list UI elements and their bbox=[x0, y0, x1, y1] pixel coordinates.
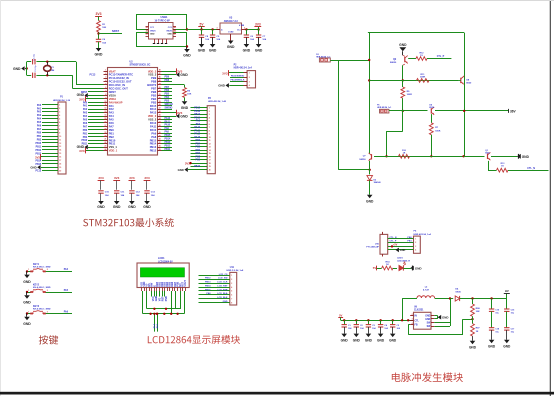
svg-text:PA8: PA8 bbox=[165, 131, 170, 134]
svg-text:GND: GND bbox=[23, 322, 31, 326]
svg-text:45: 45 bbox=[159, 79, 161, 82]
svg-text:10K: 10K bbox=[187, 94, 191, 96]
svg-text:B1: B1 bbox=[174, 34, 176, 36]
svg-text:7: 7 bbox=[59, 125, 60, 127]
svg-text:P1: P1 bbox=[60, 97, 64, 99]
svg-text:1: 1 bbox=[28, 311, 29, 313]
svg-text:PB13: PB13 bbox=[205, 282, 211, 284]
svg-text:+5V: +5V bbox=[393, 244, 398, 247]
svg-text:PA5: PA5 bbox=[83, 119, 88, 122]
svg-text:GND: GND bbox=[218, 84, 226, 88]
svg-text:R7: R7 bbox=[435, 127, 439, 129]
svg-text:3V3: 3V3 bbox=[35, 155, 40, 159]
svg-text:PB14: PB14 bbox=[205, 284, 211, 287]
svg-text:PB14: PB14 bbox=[35, 159, 41, 162]
svg-text:PB12: PB12 bbox=[165, 145, 171, 147]
svg-text:R1: R1 bbox=[102, 24, 106, 26]
svg-text:3V3: 3V3 bbox=[222, 71, 228, 75]
svg-text:C18: C18 bbox=[495, 328, 500, 330]
svg-text:PC13-TAMPER-RTC: PC13-TAMPER-RTC bbox=[109, 73, 133, 77]
svg-text:1K: 1K bbox=[501, 165, 504, 167]
svg-text:8: 8 bbox=[105, 94, 106, 96]
svg-text:PA14: PA14 bbox=[150, 107, 157, 111]
svg-text:C13: C13 bbox=[151, 192, 156, 194]
svg-text:3V3: 3V3 bbox=[129, 176, 135, 180]
svg-text:GND: GND bbox=[97, 205, 105, 209]
svg-text:2: 2 bbox=[47, 311, 48, 313]
svg-text:NRST: NRST bbox=[112, 29, 119, 33]
svg-text:PB0: PB0 bbox=[83, 130, 88, 132]
svg-text:104: 104 bbox=[121, 194, 125, 197]
svg-text:104: 104 bbox=[372, 327, 376, 330]
svg-text:PB2: PB2 bbox=[83, 137, 88, 139]
svg-text:VSSA: VSSA bbox=[109, 93, 116, 97]
svg-text:PA6: PA6 bbox=[37, 125, 42, 128]
svg-text:2: 2 bbox=[47, 269, 48, 271]
svg-text:PB10: PB10 bbox=[35, 143, 41, 145]
svg-text:1: 1 bbox=[59, 105, 60, 107]
svg-text:BLK: BLK bbox=[157, 323, 159, 328]
svg-text:16: 16 bbox=[209, 156, 211, 158]
svg-text:24: 24 bbox=[105, 148, 107, 151]
svg-text:4: 4 bbox=[249, 84, 250, 87]
svg-text:3V3: 3V3 bbox=[144, 176, 150, 180]
svg-text:FB: FB bbox=[415, 325, 418, 327]
svg-text:PB4: PB4 bbox=[196, 142, 201, 145]
svg-text:R08: R08 bbox=[476, 308, 481, 310]
svg-text:PA7: PA7 bbox=[109, 124, 114, 128]
svg-text:3V3: 3V3 bbox=[79, 97, 85, 101]
svg-text:7: 7 bbox=[209, 127, 210, 129]
svg-text:PA11: PA11 bbox=[150, 124, 157, 128]
svg-text:4: 4 bbox=[231, 286, 232, 289]
svg-text:C3 22p: C3 22p bbox=[35, 64, 37, 72]
svg-text:15: 15 bbox=[209, 153, 211, 155]
svg-text:10: 10 bbox=[209, 137, 211, 139]
svg-text:3: 3 bbox=[415, 246, 416, 248]
svg-text:9: 9 bbox=[209, 134, 210, 136]
svg-text:PA4: PA4 bbox=[37, 118, 42, 121]
svg-text:PB14: PB14 bbox=[165, 138, 171, 141]
svg-text:U8: U8 bbox=[466, 79, 470, 81]
svg-text:2: 2 bbox=[231, 279, 232, 281]
svg-text:17: 17 bbox=[59, 160, 61, 162]
svg-text:2: 2 bbox=[412, 314, 413, 316]
svg-text:PA12: PA12 bbox=[194, 133, 200, 136]
svg-text:PA1: PA1 bbox=[83, 105, 88, 108]
svg-text:39: 39 bbox=[159, 101, 161, 103]
svg-text:PB6: PB6 bbox=[151, 90, 157, 94]
svg-text:PB1: PB1 bbox=[37, 136, 42, 138]
svg-text:GND: GND bbox=[503, 345, 511, 349]
svg-text:1K: 1K bbox=[476, 331, 479, 333]
svg-text:GND: GND bbox=[341, 339, 349, 343]
svg-text:GND: GND bbox=[365, 339, 373, 343]
svg-text:U3: U3 bbox=[229, 17, 233, 20]
svg-text:5V: 5V bbox=[373, 266, 377, 270]
svg-text:PB2: PB2 bbox=[109, 135, 115, 139]
svg-text:14: 14 bbox=[59, 149, 61, 152]
svg-text:5: 5 bbox=[59, 118, 60, 120]
svg-text:10u: 10u bbox=[495, 313, 499, 315]
svg-text:B5: B5 bbox=[174, 27, 176, 29]
svg-text:PA13/SWDIO: PA13/SWDIO bbox=[231, 74, 245, 77]
svg-text:GND: GND bbox=[183, 54, 191, 58]
svg-text:C5: C5 bbox=[397, 325, 400, 327]
svg-text:PA8: PA8 bbox=[196, 120, 201, 123]
svg-text:VDD_3: VDD_3 bbox=[148, 69, 157, 73]
svg-text:PA8: PA8 bbox=[151, 135, 156, 139]
svg-text:A1: A1 bbox=[146, 33, 148, 36]
svg-text:GND: GND bbox=[442, 316, 448, 320]
svg-text:15: 15 bbox=[105, 118, 107, 120]
svg-text:37: 37 bbox=[159, 108, 161, 110]
svg-text:GND: GND bbox=[399, 43, 407, 47]
svg-text:CTL_N: CTL_N bbox=[527, 167, 535, 170]
svg-text:2: 2 bbox=[105, 73, 106, 75]
svg-text:PB3: PB3 bbox=[151, 100, 157, 104]
svg-text:1 GND: 1 GND bbox=[228, 32, 234, 34]
svg-text:2: 2 bbox=[59, 108, 60, 110]
svg-text:HDR-F-2.54_1x8: HDR-F-2.54_1x8 bbox=[227, 269, 244, 272]
svg-text:PB10: PB10 bbox=[194, 166, 200, 168]
svg-text:26: 26 bbox=[159, 146, 161, 148]
svg-text:C6: C6 bbox=[250, 36, 254, 38]
svg-text:6: 6 bbox=[59, 122, 60, 124]
svg-text:25: 25 bbox=[159, 149, 161, 151]
svg-text:PA15: PA15 bbox=[194, 136, 200, 139]
svg-text:GND: GND bbox=[181, 106, 189, 110]
svg-text:SS36: SS36 bbox=[455, 291, 461, 293]
svg-text:C4: C4 bbox=[102, 38, 106, 41]
svg-text:HDR-M2.54_1x1: HDR-M2.54_1x1 bbox=[377, 106, 391, 109]
svg-text:C12: C12 bbox=[136, 192, 141, 194]
svg-text:R14: R14 bbox=[385, 261, 390, 264]
svg-text:12: 12 bbox=[59, 143, 61, 145]
svg-text:C15: C15 bbox=[511, 310, 516, 312]
svg-text:PB5: PB5 bbox=[196, 147, 201, 149]
svg-text:GND: GND bbox=[377, 339, 385, 343]
svg-text:8050: 8050 bbox=[466, 82, 472, 84]
svg-text:VBUS: VBUS bbox=[166, 30, 172, 32]
svg-text:3: 3 bbox=[231, 283, 232, 285]
svg-text:2: 2 bbox=[209, 111, 210, 113]
svg-text:20: 20 bbox=[59, 171, 61, 173]
svg-text:1N4148: 1N4148 bbox=[374, 181, 382, 184]
svg-text:PA3: PA3 bbox=[37, 114, 42, 117]
svg-text:6: 6 bbox=[231, 295, 232, 297]
svg-text:1: 1 bbox=[209, 108, 210, 110]
svg-text:S8050: S8050 bbox=[390, 62, 397, 64]
svg-text:9: 9 bbox=[105, 97, 106, 99]
svg-text:28: 28 bbox=[159, 139, 161, 141]
svg-text:SWCLK: SWCLK bbox=[165, 104, 174, 106]
svg-text:51: 51 bbox=[420, 55, 423, 57]
svg-text:27: 27 bbox=[159, 142, 161, 144]
svg-text:19: 19 bbox=[59, 167, 61, 169]
svg-text:3V3: 3V3 bbox=[79, 149, 85, 153]
svg-text:5V: 5V bbox=[339, 313, 343, 317]
svg-text:PB11: PB11 bbox=[165, 149, 171, 151]
svg-text:4: 4 bbox=[105, 79, 106, 82]
svg-text:P2: P2 bbox=[234, 64, 238, 66]
svg-text:PA15: PA15 bbox=[150, 104, 157, 108]
svg-text:6: 6 bbox=[105, 87, 106, 89]
svg-text:7: 7 bbox=[105, 90, 106, 92]
svg-text:GND: GND bbox=[23, 280, 31, 284]
svg-text:31: 31 bbox=[159, 128, 161, 130]
svg-text:HV: HV bbox=[505, 289, 509, 293]
svg-text:LCD_BLA: LCD_BLA bbox=[217, 292, 228, 295]
svg-text:PB6: PB6 bbox=[165, 90, 170, 92]
svg-text:4 TAB: 4 TAB bbox=[239, 24, 245, 27]
svg-text:SWDIO: SWDIO bbox=[165, 107, 173, 109]
svg-text:8: 8 bbox=[209, 130, 210, 132]
svg-text:PB9: PB9 bbox=[196, 160, 201, 162]
svg-text:3: 3 bbox=[105, 77, 106, 79]
svg-text:23: 23 bbox=[105, 146, 107, 148]
svg-text:RCC-OSC_IN: RCC-OSC_IN bbox=[109, 83, 125, 87]
svg-text:C2: C2 bbox=[360, 325, 363, 327]
svg-text:18: 18 bbox=[209, 163, 211, 165]
svg-text:104: 104 bbox=[105, 194, 109, 197]
svg-text:HDR-4X2.54_1-40: HDR-4X2.54_1-40 bbox=[208, 100, 227, 103]
svg-text:PC14-OSC32_IN: PC14-OSC32_IN bbox=[109, 76, 129, 80]
svg-text:PB10: PB10 bbox=[81, 140, 87, 142]
svg-text:KH-6.0X6.1_SMD: KH-6.0X6.1_SMD bbox=[33, 267, 51, 269]
svg-text:GND: GND bbox=[522, 155, 530, 159]
svg-text:PB3: PB3 bbox=[196, 140, 201, 142]
svg-text:C8: C8 bbox=[205, 36, 209, 38]
svg-text:15: 15 bbox=[59, 153, 61, 155]
svg-text:PB8: PB8 bbox=[151, 80, 157, 84]
svg-text:14: 14 bbox=[209, 149, 211, 152]
svg-text:PB6: PB6 bbox=[196, 150, 201, 152]
svg-text:CTL_P: CTL_P bbox=[437, 55, 445, 58]
svg-text:PA5: PA5 bbox=[109, 118, 114, 122]
svg-text:GND: GND bbox=[223, 301, 228, 303]
svg-text:LCD_SID: LCD_SID bbox=[218, 278, 228, 280]
svg-text:8550: 8550 bbox=[429, 107, 435, 109]
svg-text:CTL: CTL bbox=[415, 320, 420, 322]
svg-text:32: 32 bbox=[159, 125, 161, 127]
svg-text:Y1: Y1 bbox=[51, 67, 54, 69]
svg-text:PA9: PA9 bbox=[165, 127, 170, 130]
svg-text:P5: P5 bbox=[377, 104, 379, 106]
svg-text:GND: GND bbox=[198, 48, 206, 52]
svg-text:PA4: PA4 bbox=[83, 115, 88, 118]
svg-text:GND: GND bbox=[389, 339, 397, 343]
svg-text:40: 40 bbox=[159, 96, 161, 99]
svg-text:PA14/SWCLK: PA14/SWCLK bbox=[231, 79, 245, 82]
svg-text:1K: 1K bbox=[403, 153, 406, 155]
svg-text:PC13: PC13 bbox=[90, 75, 96, 77]
svg-text:PA7: PA7 bbox=[83, 125, 88, 128]
svg-text:KEY2: KEY2 bbox=[33, 284, 40, 286]
svg-text:100K: 100K bbox=[435, 130, 441, 132]
svg-text:C11: C11 bbox=[121, 192, 126, 194]
svg-text:KEY3: KEY3 bbox=[33, 306, 40, 308]
svg-text:PA11: PA11 bbox=[165, 120, 171, 123]
svg-text:3V3: 3V3 bbox=[95, 12, 101, 16]
svg-text:10u: 10u bbox=[511, 331, 515, 333]
svg-text:5V: 5V bbox=[200, 22, 205, 26]
svg-text:48: 48 bbox=[159, 69, 161, 72]
svg-text:A4: A4 bbox=[146, 29, 148, 32]
svg-text:3: 3 bbox=[209, 114, 210, 116]
svg-text:17: 17 bbox=[209, 160, 211, 162]
svg-text:GND: GND bbox=[178, 168, 184, 172]
svg-text:VDDA: VDDA bbox=[109, 97, 116, 101]
svg-text:104: 104 bbox=[216, 38, 220, 41]
svg-text:PA6: PA6 bbox=[64, 310, 69, 313]
svg-text:10u: 10u bbox=[511, 313, 515, 315]
svg-text:16: 16 bbox=[105, 121, 107, 123]
svg-text:VSS_2: VSS_2 bbox=[148, 118, 157, 122]
svg-text:3: 3 bbox=[59, 112, 60, 114]
svg-text:104: 104 bbox=[102, 41, 106, 44]
svg-text:PB7: PB7 bbox=[165, 87, 170, 89]
svg-text:KH-6.0X6.1_SMD: KH-6.0X6.1_SMD bbox=[33, 309, 51, 311]
svg-text:NRST: NRST bbox=[109, 90, 116, 94]
svg-text:3: 3 bbox=[412, 319, 413, 321]
svg-text:D4: D4 bbox=[455, 288, 459, 291]
svg-text:C4: C4 bbox=[384, 324, 387, 327]
svg-text:PA3: PA3 bbox=[83, 112, 88, 115]
svg-text:PA12: PA12 bbox=[150, 121, 157, 125]
svg-text:PB15: PB15 bbox=[150, 138, 157, 142]
svg-text:CL62231: CL62231 bbox=[414, 310, 424, 312]
svg-text:4: 4 bbox=[59, 114, 60, 117]
svg-text:GND: GND bbox=[425, 316, 430, 318]
svg-text:PB4: PB4 bbox=[151, 97, 157, 101]
svg-text:18: 18 bbox=[59, 164, 61, 166]
svg-text:PB2: PB2 bbox=[37, 140, 42, 142]
svg-text:C3: C3 bbox=[372, 325, 375, 327]
svg-text:PB0: PB0 bbox=[109, 128, 115, 132]
svg-text:BOOT0: BOOT0 bbox=[147, 83, 156, 87]
svg-text:PA0-WKUP: PA0-WKUP bbox=[109, 100, 123, 104]
svg-text:PB15: PB15 bbox=[194, 117, 200, 119]
svg-text:1: 1 bbox=[28, 290, 29, 292]
svg-text:47: 47 bbox=[159, 72, 161, 75]
svg-text:2: 2 bbox=[47, 290, 48, 292]
svg-text:20: 20 bbox=[209, 169, 211, 171]
svg-text:12: 12 bbox=[209, 143, 211, 145]
svg-text:9: 9 bbox=[59, 132, 60, 134]
svg-text:PB1: PB1 bbox=[83, 133, 88, 135]
svg-text:U9: U9 bbox=[414, 306, 418, 308]
svg-text:GND: GND bbox=[243, 48, 251, 52]
svg-text:PB9: PB9 bbox=[165, 76, 170, 78]
svg-text:1K: 1K bbox=[386, 264, 389, 266]
svg-text:GND: GND bbox=[353, 339, 361, 343]
svg-text:19: 19 bbox=[209, 166, 211, 168]
svg-text:1: 1 bbox=[415, 239, 416, 241]
svg-text:10K: 10K bbox=[102, 27, 106, 29]
svg-text:8M: 8M bbox=[51, 70, 54, 72]
svg-text:GND: GND bbox=[128, 205, 136, 209]
svg-text:100R: 100R bbox=[420, 77, 426, 79]
svg-text:PA0: PA0 bbox=[83, 101, 88, 104]
svg-text:PB9: PB9 bbox=[151, 76, 157, 80]
svg-text:PA1: PA1 bbox=[109, 104, 114, 108]
svg-text:16: 16 bbox=[59, 157, 61, 159]
svg-text:12: 12 bbox=[105, 108, 107, 110]
svg-text:GND: GND bbox=[95, 53, 103, 57]
svg-text:10: 10 bbox=[105, 101, 107, 103]
svg-text:PA9: PA9 bbox=[196, 123, 201, 126]
svg-text:14: 14 bbox=[105, 114, 107, 117]
svg-text:RCC-OSC_OUT: RCC-OSC_OUT bbox=[109, 87, 128, 91]
svg-text:PA6: PA6 bbox=[83, 122, 88, 125]
svg-text:1: 1 bbox=[231, 275, 232, 277]
svg-text:LCD1: LCD1 bbox=[158, 257, 165, 260]
svg-text:LCD_BLK: LCD_BLK bbox=[217, 297, 228, 299]
svg-text:4: 4 bbox=[412, 322, 413, 325]
svg-text:3V3: 3V3 bbox=[185, 161, 190, 165]
svg-text:4: 4 bbox=[415, 249, 416, 252]
svg-text:KH-6.0X6.1_SMD: KH-6.0X6.1_SMD bbox=[33, 287, 51, 289]
svg-text:8: 8 bbox=[59, 129, 60, 131]
svg-text:5: 5 bbox=[105, 84, 106, 86]
svg-text:GND: GND bbox=[23, 300, 31, 304]
svg-text:GND: GND bbox=[425, 319, 430, 321]
svg-text:PB1: PB1 bbox=[109, 131, 115, 135]
svg-text:104: 104 bbox=[151, 194, 155, 197]
svg-text:C1: C1 bbox=[348, 325, 351, 327]
svg-text:BLA: BLA bbox=[153, 323, 156, 328]
svg-text:PB13: PB13 bbox=[165, 142, 171, 144]
svg-text:11: 11 bbox=[59, 139, 61, 141]
svg-text:104: 104 bbox=[250, 38, 254, 41]
svg-text:104: 104 bbox=[360, 327, 364, 330]
svg-text:PA7: PA7 bbox=[37, 128, 42, 131]
svg-text:CTL_N: CTL_N bbox=[389, 237, 396, 239]
svg-text:3: 3 bbox=[249, 81, 250, 83]
svg-text:PB8: PB8 bbox=[196, 156, 201, 158]
svg-text:36: 36 bbox=[159, 111, 161, 113]
svg-text:PA1: PA1 bbox=[37, 107, 42, 110]
svg-text:GND: GND bbox=[415, 266, 423, 270]
svg-text:19: 19 bbox=[105, 132, 107, 134]
svg-text:PB12: PB12 bbox=[194, 108, 200, 110]
svg-text:PA0: PA0 bbox=[37, 104, 42, 107]
svg-text:PA11: PA11 bbox=[195, 129, 201, 132]
svg-text:GND: GND bbox=[255, 48, 263, 52]
svg-text:104: 104 bbox=[205, 38, 209, 41]
svg-text:3: 3 bbox=[217, 28, 218, 30]
svg-text:U7: U7 bbox=[363, 156, 367, 158]
svg-text:2: 2 bbox=[249, 77, 250, 79]
svg-text:PB7: PB7 bbox=[196, 153, 201, 155]
svg-text:PA5: PA5 bbox=[37, 121, 42, 124]
svg-text:GND: GND bbox=[150, 34, 155, 36]
svg-text:PB0: PB0 bbox=[37, 133, 42, 135]
svg-text:GND: GND bbox=[180, 114, 188, 118]
svg-text:FYC-B05-4P: FYC-B05-4P bbox=[366, 246, 379, 249]
svg-text:C7: C7 bbox=[262, 36, 266, 38]
svg-text:GND: GND bbox=[488, 345, 496, 349]
svg-text:S8550: S8550 bbox=[359, 159, 366, 161]
svg-text:10K: 10K bbox=[476, 311, 480, 313]
svg-text:D2: D2 bbox=[374, 179, 377, 181]
svg-text:6: 6 bbox=[209, 124, 210, 126]
svg-text:C16: C16 bbox=[495, 310, 500, 312]
svg-text:13: 13 bbox=[105, 111, 107, 113]
svg-text:33: 33 bbox=[159, 121, 161, 123]
svg-text:C2 22p: C2 22p bbox=[34, 53, 36, 61]
